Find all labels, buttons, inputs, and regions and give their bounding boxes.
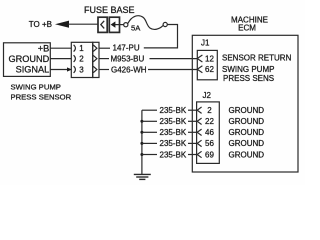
svg-text:3: 3 — [79, 65, 84, 74]
wire G426-WH — [99, 69, 109, 71]
J1 pin 12 — [197, 55, 202, 62]
wire M953-BU — [99, 58, 109, 60]
connector J2 label — [203, 91, 212, 100]
svg-text:FUSE BASE: FUSE BASE — [84, 5, 135, 15]
label MACHINE ECM — [231, 16, 268, 33]
connector plug pin 3 — [93, 66, 97, 72]
arrow to +B — [55, 21, 69, 28]
fuse terminal circle right — [163, 22, 167, 26]
svg-text:PRESS SENSOR: PRESS SENSOR — [11, 93, 72, 102]
svg-text:5A: 5A — [131, 23, 141, 32]
svg-text:22: 22 — [205, 117, 214, 126]
fuse base terminal box 1 — [98, 17, 107, 32]
svg-text:235-BK: 235-BK — [160, 150, 187, 159]
J2 pin 2 — [197, 107, 201, 113]
connector J1 label — [201, 38, 210, 47]
J2 pin 22 — [197, 118, 201, 124]
fuse terminal circle left — [124, 23, 128, 27]
wire 235-BK row 5 — [140, 153, 143, 156]
wire 235-BK row 2 — [140, 120, 143, 123]
svg-text:GROUND: GROUND — [229, 117, 265, 126]
svg-text:69: 69 — [205, 150, 214, 159]
connector socket pin 1 — [74, 45, 76, 52]
svg-text:56: 56 — [205, 139, 214, 148]
ground symbol — [134, 174, 151, 179]
svg-text:PRESS SENS: PRESS SENS — [223, 74, 274, 83]
svg-text:235-BK: 235-BK — [160, 128, 187, 137]
svg-text:GROUND: GROUND — [229, 128, 265, 137]
svg-text:235-BK: 235-BK — [160, 106, 187, 115]
svg-text:GROUND: GROUND — [229, 150, 265, 159]
svg-text:GROUND: GROUND — [229, 106, 265, 115]
wire sensor SIGNAL to connector pin 3 (with arrowhead) — [50, 69, 67, 71]
ground bus vertical wire — [141, 110, 143, 174]
connector plug pin 2 — [93, 55, 97, 61]
J1 pin 62 — [197, 66, 202, 73]
svg-text:+B: +B — [38, 44, 50, 54]
label 5A — [131, 23, 141, 32]
J2 pin 69 — [197, 151, 201, 157]
wire 235-BK row 3 — [140, 131, 143, 134]
svg-text:SWING PUMP: SWING PUMP — [11, 82, 61, 91]
svg-text:J1: J1 — [201, 38, 210, 47]
fuse base terminal box 2 — [109, 17, 123, 32]
fuse element 5A squiggle — [128, 16, 163, 30]
connector socket pin 2 — [74, 55, 76, 62]
connector socket pin 3 — [74, 66, 76, 73]
svg-text:235-BK: 235-BK — [160, 139, 187, 148]
wire 235-BK row 4 — [140, 142, 143, 145]
wire 147-PU — [99, 47, 110, 49]
svg-text:ECM: ECM — [238, 23, 256, 32]
svg-text:2: 2 — [79, 55, 84, 64]
svg-text:M953-BU: M953-BU — [111, 54, 145, 63]
connector J1 box — [197, 50, 217, 79]
svg-text:J2: J2 — [203, 91, 212, 100]
svg-text:SWING PUMP: SWING PUMP — [222, 65, 274, 74]
wire fuse to 147-PU net — [144, 25, 178, 48]
wire sensor GROUND to connector pin 2 — [50, 58, 71, 60]
label FUSE BASE — [84, 5, 135, 15]
connector J2 box — [197, 102, 220, 163]
svg-text:G426-WH: G426-WH — [111, 65, 147, 74]
svg-text:147-PU: 147-PU — [113, 44, 140, 53]
label SWING PUMP PRESS SENS — [222, 65, 274, 83]
wire sensor +B to connector pin 1 — [50, 47, 71, 49]
svg-text:TO +B: TO +B — [29, 20, 52, 29]
svg-text:GROUND: GROUND — [8, 54, 49, 64]
label SWING PUMP PRESS SENSOR — [11, 82, 72, 101]
svg-text:SIGNAL: SIGNAL — [16, 65, 50, 75]
svg-text:62: 62 — [205, 65, 214, 74]
sensor connector plug box — [93, 42, 99, 77]
wire +B arrow to fuse base — [68, 23, 98, 25]
machine ECM box — [192, 35, 298, 172]
node TO +B (battery feed) — [29, 20, 52, 29]
svg-text:2: 2 — [207, 106, 212, 115]
J2 pin 46 — [197, 129, 201, 135]
svg-text:SENSOR RETURN: SENSOR RETURN — [222, 54, 292, 63]
svg-text:46: 46 — [205, 128, 214, 137]
sensor box (swing pump press sensor) — [4, 43, 51, 77]
J2 pin 56 — [197, 140, 201, 146]
wire 235-BK row 1 — [142, 109, 157, 111]
labels GROUND x5 — [229, 106, 265, 159]
svg-text:1: 1 — [79, 44, 84, 53]
label SENSOR RETURN — [222, 54, 292, 63]
connector plug pin 1 — [93, 45, 97, 51]
svg-text:12: 12 — [205, 54, 214, 63]
svg-text:GROUND: GROUND — [229, 139, 265, 148]
sensor connector socket box — [71, 42, 92, 77]
svg-text:235-BK: 235-BK — [160, 117, 187, 126]
